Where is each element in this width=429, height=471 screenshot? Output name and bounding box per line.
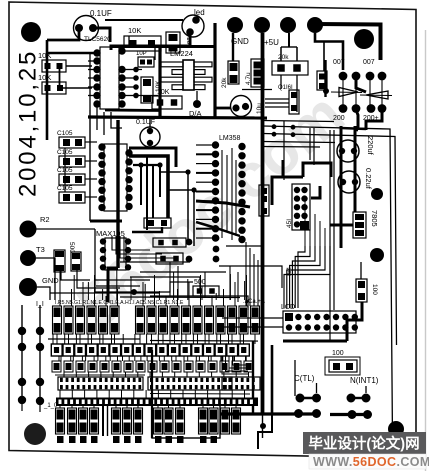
resistor 10K vertical — [141, 77, 153, 103]
wire U1 left rail — [89, 53, 91, 110]
header pad 3 — [280, 17, 296, 33]
footprint mid2 — [317, 71, 327, 90]
pad left diode col — [323, 88, 329, 94]
wire U2 bend — [108, 268, 118, 302]
pads col x216 — [213, 235, 220, 242]
wire fan to LCD — [298, 246, 305, 308]
wire fan feeds — [304, 200, 306, 246]
wire ctl down — [316, 383, 318, 393]
wire 500 link — [134, 282, 193, 292]
header pad 1 — [227, 17, 243, 33]
IC U1 stub wires — [122, 69, 136, 71]
wire maze 4 — [132, 227, 162, 232]
capacitor 220uf — [337, 140, 359, 162]
footprint mid1 — [289, 90, 299, 114]
wires vertical mid-right — [283, 121, 285, 180]
wire caps joins — [341, 128, 366, 129]
wires row B verticals — [56, 334, 58, 344]
wires LM358 to LCD verticals — [245, 242, 247, 306]
inner frame line C — [263, 121, 334, 122]
wire col1 tail — [21, 400, 23, 411]
mounting hole bottom-left — [24, 423, 46, 445]
svg-text:10K: 10K — [128, 26, 141, 35]
capacitor 0.1UF top-left — [74, 16, 99, 41]
wire U1 left stubs — [88, 60, 97, 62]
wire LED to U1 bus — [111, 35, 190, 50]
svg-text:GND: GND — [42, 276, 59, 285]
wire relay bottom bus — [220, 412, 320, 415]
junction maze b — [157, 162, 162, 167]
diode D bridge left — [339, 88, 358, 97]
wire diag thick lower — [196, 222, 240, 236]
mounting hole top-right — [354, 29, 374, 49]
svg-text:C105: C105 — [57, 185, 73, 192]
wire left rail down — [89, 110, 91, 221]
diode pads row2 — [339, 104, 348, 113]
svg-text:T3: T3 — [36, 245, 45, 254]
wires LCD left feeds — [222, 317, 283, 319]
pads row H — [57, 436, 64, 443]
wire r1-r2 link — [59, 66, 61, 88]
wire u3 links — [95, 279, 150, 281]
wire to fp mid2 — [323, 41, 325, 71]
svg-text:10K: 10K — [38, 73, 51, 82]
IC 4511 right pads — [301, 187, 307, 193]
wire mini fan — [222, 356, 248, 374]
wire col2 tail — [39, 401, 41, 412]
svg-text:C105: C105 — [57, 149, 73, 156]
wire thick right block — [347, 302, 362, 341]
watermark box light — [309, 454, 426, 469]
header pad 4 — [307, 17, 323, 33]
svg-text:10P: 10P — [136, 51, 147, 57]
wire r1 to IC — [66, 65, 92, 67]
inner frame line B — [263, 134, 397, 346]
footprint relay N — [329, 360, 357, 372]
svg-text:C105: C105 — [57, 167, 73, 174]
wire thick matrix vertical — [102, 406, 104, 436]
svg-text:10u: 10u — [256, 103, 263, 114]
wire diag thick — [196, 201, 250, 207]
svg-text:007: 007 — [363, 59, 375, 66]
resistor 100 vertical — [360, 262, 362, 279]
wire U1 bottom feeds — [96, 107, 98, 130]
wire Q1 left — [215, 107, 231, 110]
wire U1 to LM224 rails — [136, 69, 142, 71]
svg-text:WWW.56DOC.COM: WWW.56DOC.COM — [313, 455, 429, 469]
IC U1 left pads — [93, 49, 100, 56]
svg-text:R2: R2 — [40, 215, 50, 224]
watermark box dark — [303, 432, 426, 454]
wire thick jog 1 — [272, 177, 303, 205]
IC 4511 body — [292, 184, 310, 230]
component row D — [52, 361, 61, 372]
wire relay corner — [258, 414, 272, 449]
junction dot relay — [260, 423, 266, 429]
wire bus branch — [47, 52, 95, 54]
svg-text:led: led — [194, 8, 205, 17]
wire section bus top — [111, 45, 215, 48]
IC LM358 inner wires — [221, 150, 223, 238]
wire maze 5 — [160, 172, 188, 240]
svg-text:_1_0: _1_0 — [43, 403, 58, 409]
connector row C — [51, 344, 62, 356]
footprint aux left #1 — [54, 250, 65, 272]
wire thick jog 4 — [282, 160, 285, 177]
wires mid short — [265, 98, 289, 100]
wires matrix horizontals — [48, 338, 140, 340]
footprint 4511 aux — [259, 185, 269, 216]
svg-text:0.1UF: 0.1UF — [90, 9, 112, 18]
wire section bus left vertical — [158, 46, 161, 117]
diode column wires — [342, 76, 344, 108]
mounting hole top-left — [21, 22, 41, 42]
IC row E horizontal DIPs — [58, 377, 143, 390]
pad pair col1 — [18, 327, 26, 335]
wire header1 down — [232, 33, 234, 61]
wire thick jog 2 — [303, 163, 331, 177]
pad D/A — [193, 100, 201, 108]
junction maze d — [191, 187, 196, 192]
transistor Q1 — [231, 96, 252, 117]
inner frame line A — [263, 126, 393, 441]
svg-text:45I: 45I — [286, 219, 293, 228]
wire r2 to IC — [60, 87, 92, 89]
svg-text:N(INT1): N(INT1) — [350, 376, 379, 385]
IC U1 right pads — [118, 47, 125, 54]
svg-text:0.22uf: 0.22uf — [364, 168, 373, 190]
wire diode to caps B — [354, 126, 357, 212]
IC 4511 left pads — [294, 187, 300, 193]
svg-text:0.1UF: 0.1UF — [136, 119, 155, 126]
svg-text:毕业设计(论文)网: 毕业设计(论文)网 — [308, 435, 419, 453]
IC U3 right pads — [125, 238, 131, 244]
vertical resistor row lower — [56, 408, 65, 434]
svg-text:7805: 7805 — [370, 210, 379, 227]
scanner shadow right edge — [425, 30, 427, 471]
wire diode jog right — [366, 109, 382, 130]
junction dot — [131, 289, 137, 295]
svg-text:C(TL): C(TL) — [294, 374, 315, 383]
relay pads row2 — [294, 409, 303, 418]
pad T3 — [20, 250, 36, 266]
connector LCD — [283, 311, 356, 333]
wire header4 down — [315, 33, 343, 70]
svg-text:20k: 20k — [278, 54, 289, 61]
resistor under U2 — [144, 218, 171, 228]
IC LM358 left stub wires — [196, 144, 212, 146]
resistor 500 #3 — [193, 286, 219, 296]
svg-text:2004,10,25: 2004,10,25 — [15, 49, 42, 197]
IC U2 left pads — [98, 143, 105, 150]
wire U2 thick vertical — [116, 120, 119, 268]
svg-text:007: 007 — [333, 59, 345, 66]
wire left bus — [46, 40, 49, 140]
wire cap to U1 — [93, 28, 110, 42]
wire mid cross — [242, 89, 272, 91]
junction maze c — [185, 169, 190, 174]
wire relay vertical 3 — [294, 360, 296, 396]
svg-text:C105: C105 — [57, 130, 73, 137]
wire aux links — [61, 269, 90, 280]
IC U3 body — [105, 238, 126, 270]
diode D bridge right — [366, 91, 388, 99]
wire T3 — [36, 258, 55, 300]
wire fan mid-left — [112, 236, 150, 250]
regulator 7805 — [353, 212, 366, 238]
wires horizontal mid-right lower — [263, 142, 335, 143]
wire thick bottom-left bus — [151, 350, 153, 438]
via right middle — [371, 188, 383, 200]
capacitor 0.22uf — [338, 171, 360, 193]
capacitor 100 vertical — [166, 32, 180, 53]
mounting hole bottom-right — [388, 421, 404, 437]
wire relay vertical 2 — [271, 345, 274, 414]
svg-text:100: 100 — [371, 284, 378, 295]
wire maze 2 — [129, 156, 168, 218]
junction dots mid — [272, 124, 277, 129]
svg-text:LM358: LM358 — [219, 135, 241, 142]
wire diode zig — [356, 80, 366, 92]
wire under LCD — [283, 340, 347, 343]
wire maze verticals — [140, 165, 142, 205]
svg-text:20k: 20k — [221, 77, 228, 88]
wire left diode col — [324, 60, 326, 97]
wire maze 1 — [129, 148, 176, 167]
vertical resistor row upper — [53, 306, 62, 334]
svg-text:100: 100 — [332, 350, 344, 357]
via right lower — [370, 248, 384, 262]
wires above matrix — [50, 292, 160, 294]
connector row F dark bar — [56, 398, 258, 407]
wires matrix texture — [60, 356, 62, 361]
header pad 2 +5V — [254, 17, 270, 33]
wire diode jog mid — [356, 110, 358, 130]
wires mid verticals — [169, 262, 171, 296]
junction maze a — [138, 162, 143, 167]
IC U3 left pads — [100, 238, 106, 244]
IC U2 MAX195 body — [104, 144, 127, 211]
wire thick top-right — [316, 24, 381, 60]
pad R2 — [20, 221, 37, 238]
wires bus into matrix — [59, 268, 61, 300]
wire under U2 — [90, 220, 122, 223]
wire section bus right vertical — [213, 23, 216, 118]
wire 20k pads down — [280, 75, 282, 89]
wire cap to bus — [47, 30, 79, 40]
pad pair col2 — [36, 327, 44, 335]
wire header3 down — [288, 33, 290, 47]
wires row C risers — [52, 334, 54, 344]
resistor 500 #1 — [153, 238, 186, 247]
wire section bus bottom — [88, 117, 267, 118]
pad GND left — [19, 278, 37, 296]
wire under U1 — [105, 109, 161, 112]
wire nint down — [365, 386, 367, 393]
wire thick jog 3 — [311, 186, 320, 198]
svg-text:TLC5620: TLC5620 — [84, 36, 111, 43]
IC U2 right pads — [125, 149, 132, 156]
resistor 500 #2 — [156, 253, 183, 264]
svg-text:LM224: LM224 — [170, 49, 193, 58]
wire col1 — [21, 305, 23, 400]
wire GND left — [37, 287, 50, 300]
svg-text:I.R5.N5.G1.R1.N1.E.CH1.E.A.H1.: I.R5.N5.G1.R1.N1.E.CH1.E.A.H1.I.AC5.N5.C… — [55, 300, 184, 306]
relay pads row1 — [296, 394, 305, 403]
wire under 7805 — [330, 224, 353, 227]
box outline bottom middle — [152, 405, 220, 438]
wire cap2 up — [149, 118, 151, 127]
wire R2 — [36, 228, 95, 230]
wire maze 3 — [133, 164, 160, 166]
IC LM358 left pads — [212, 141, 219, 148]
wire maze 6 — [168, 190, 194, 246]
IC LM358 right pads — [238, 143, 245, 150]
IC U1 TLC5620 body — [100, 47, 119, 109]
wires mid band horizontals — [140, 271, 226, 273]
wire R2 down — [95, 229, 134, 292]
wire thick vertical main — [261, 33, 265, 415]
wires row G verticals — [59, 406, 61, 408]
footprint aux left #2 — [71, 252, 81, 271]
svg-text:I64: I64 — [286, 267, 293, 276]
wire C105 rail — [64, 148, 66, 192]
wire col2 — [39, 305, 41, 401]
svg-text:200: 200 — [333, 115, 345, 122]
svg-text:+5U: +5U — [264, 38, 279, 47]
LED D1 — [182, 15, 204, 37]
wire diode to caps A — [340, 126, 343, 248]
svg-text:LCD: LCD — [281, 304, 295, 311]
svg-text:220uf: 220uf — [366, 136, 375, 156]
diode pads row1 — [339, 72, 348, 81]
wire relay vertical — [252, 341, 254, 414]
wire top bus to LED — [105, 19, 183, 21]
